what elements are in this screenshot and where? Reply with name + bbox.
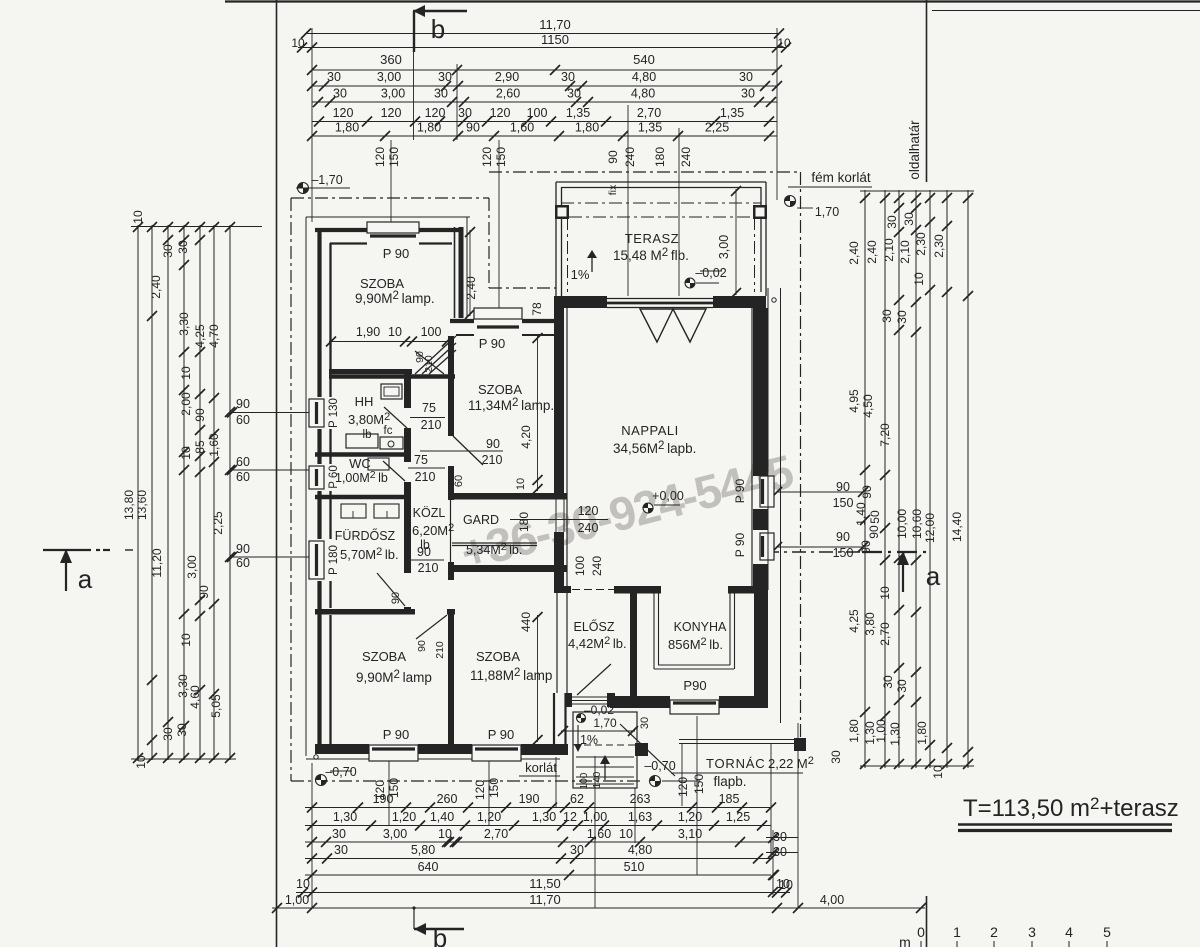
svg-text:4,80: 4,80 — [631, 87, 655, 101]
partition between bottom szoba rooms — [448, 615, 454, 744]
svg-text:240: 240 — [623, 147, 637, 167]
konyha east wall — [754, 593, 768, 708]
eaves dashed boundary courtyard — [488, 198, 490, 288]
svg-text:30: 30 — [885, 215, 899, 229]
svg-text:1,80: 1,80 — [847, 719, 861, 743]
svg-text:15,48 M2 flb.: 15,48 M2 flb. — [613, 247, 689, 263]
svg-text:1,80: 1,80 — [575, 121, 599, 135]
right dimension block vertical chains — [864, 190, 866, 768]
svg-text:2,40: 2,40 — [464, 276, 478, 300]
svg-text:150: 150 — [692, 774, 706, 794]
svg-text:13,60: 13,60 — [135, 490, 149, 520]
svg-text:85: 85 — [193, 440, 207, 454]
svg-text:–1,70: –1,70 — [311, 173, 342, 187]
svg-text:90: 90 — [236, 542, 250, 556]
spine wall opening 120/240 — [555, 496, 557, 532]
elosz south wall and threshold — [571, 696, 611, 698]
svg-text:TERASZ: TERASZ — [625, 231, 679, 246]
terasz slope arrow 1% — [591, 252, 593, 272]
svg-text:240: 240 — [679, 147, 693, 167]
svg-text:4,00: 4,00 — [820, 893, 844, 907]
svg-text:fix: fix — [607, 184, 619, 195]
svg-text:1,35: 1,35 — [638, 121, 662, 135]
svg-text:1,80: 1,80 — [417, 121, 441, 135]
partition HH / WC — [315, 452, 411, 457]
svg-text:fc: fc — [384, 425, 393, 437]
svg-text:11,88M2 lamp: 11,88M2 lamp — [470, 667, 552, 683]
window P90 south-right — [472, 745, 521, 761]
svg-text:1150: 1150 — [541, 32, 569, 47]
window P60 west wall WC — [309, 466, 324, 489]
svg-text:30: 30 — [458, 106, 472, 120]
svg-text:a: a — [926, 561, 941, 591]
svg-text:856M2 lb.: 856M2 lb. — [668, 636, 723, 652]
szoba 11,88 dim 440 — [537, 615, 539, 742]
svg-text:120: 120 — [578, 504, 599, 518]
svg-text:2,90: 2,90 — [495, 70, 519, 84]
svg-text:120: 120 — [490, 106, 511, 120]
svg-text:2,40: 2,40 — [847, 241, 861, 265]
svg-text:10: 10 — [388, 325, 402, 339]
svg-text:1,70: 1,70 — [815, 205, 839, 219]
tornac ramp diagonal — [620, 724, 675, 776]
svg-text:10: 10 — [776, 877, 790, 891]
svg-text:4,42M2 lb.: 4,42M2 lb. — [568, 635, 627, 651]
window P90 szoba 11,34 — [474, 308, 522, 319]
svg-text:4,25: 4,25 — [847, 609, 861, 633]
tornac north edge — [679, 739, 801, 741]
svg-text:150: 150 — [833, 546, 854, 560]
svg-text:1,00: 1,00 — [583, 810, 607, 824]
svg-text:SZOBA: SZOBA — [476, 649, 520, 664]
entry dashed line — [573, 744, 637, 746]
svg-text:60: 60 — [236, 455, 250, 469]
svg-text:1,25: 1,25 — [726, 810, 750, 824]
svg-text:60: 60 — [236, 556, 250, 570]
svg-text:75: 75 — [414, 453, 428, 467]
svg-text:150: 150 — [487, 778, 501, 798]
svg-text:210: 210 — [434, 641, 446, 659]
svg-text:1,70: 1,70 — [593, 716, 617, 730]
window P90 konyha south — [670, 700, 719, 714]
svg-text:10: 10 — [515, 478, 527, 490]
top dim vertical guides — [311, 28, 313, 222]
svg-text:30: 30 — [434, 87, 448, 101]
svg-text:34,56M2 lapb.: 34,56M2 lapb. — [613, 440, 696, 456]
svg-text:90: 90 — [606, 150, 620, 164]
svg-text:100: 100 — [573, 556, 587, 576]
svg-text:10: 10 — [131, 210, 145, 224]
svg-text:m: m — [899, 934, 911, 947]
svg-text:1,20: 1,20 — [477, 810, 501, 824]
svg-text:3,00: 3,00 — [377, 70, 401, 84]
svg-text:30: 30 — [334, 843, 348, 857]
WC door swing — [383, 461, 405, 481]
svg-text:3,00: 3,00 — [717, 235, 731, 259]
svg-text:90: 90 — [417, 545, 431, 559]
svg-text:180: 180 — [653, 147, 667, 167]
svg-text:GARD: GARD — [463, 513, 499, 527]
sheet frame vertical line left — [276, 0, 278, 947]
svg-text:2,70: 2,70 — [637, 106, 661, 120]
svg-text:oldalhatár: oldalhatár — [907, 120, 922, 180]
eaves dashed boundary terasz top — [489, 171, 800, 173]
svg-text:260: 260 — [437, 792, 458, 806]
svg-text:3: 3 — [1028, 924, 1036, 940]
elosz door swing — [577, 664, 611, 695]
svg-text:ELŐSZ: ELŐSZ — [574, 619, 615, 634]
east wall window P90 lower — [760, 533, 774, 560]
svg-text:210: 210 — [415, 470, 436, 484]
svg-text:62: 62 — [570, 792, 584, 806]
svg-text:14,40: 14,40 — [950, 512, 964, 542]
svg-text:120: 120 — [381, 106, 402, 120]
level mark top-left -1,70 — [298, 183, 309, 194]
svg-text:3,00: 3,00 — [185, 555, 199, 579]
svg-text:P90: P90 — [683, 678, 706, 693]
svg-text:NAPPALI: NAPPALI — [621, 423, 678, 438]
svg-text:180: 180 — [517, 512, 531, 532]
WC fixture — [368, 458, 389, 470]
svg-text:P 90: P 90 — [733, 478, 747, 503]
svg-text:+0,00: +0,00 — [652, 489, 684, 503]
partition KOZL east wall — [448, 336, 454, 436]
svg-text:30: 30 — [881, 675, 895, 689]
svg-text:SZOBA: SZOBA — [360, 276, 404, 291]
svg-text:30: 30 — [739, 70, 753, 84]
svg-text:2,60: 2,60 — [496, 87, 520, 101]
sheet border top line — [225, 0, 1200, 2]
south exterior wall — [306, 758, 560, 760]
svg-text:30: 30 — [176, 240, 190, 254]
svg-text:2,00: 2,00 — [179, 392, 193, 416]
svg-text:100: 100 — [579, 772, 590, 789]
svg-text:flapb.: flapb. — [713, 774, 746, 789]
svg-text:10,00: 10,00 — [895, 509, 909, 539]
svg-text:90: 90 — [836, 530, 850, 544]
svg-text:2,70: 2,70 — [484, 827, 508, 841]
konyha counter U — [653, 591, 655, 669]
west exterior wall — [305, 217, 307, 756]
svg-text:1,00M2 lb: 1,00M2 lb — [335, 469, 388, 485]
svg-text:HH: HH — [355, 394, 374, 409]
svg-text:3,80: 3,80 — [863, 612, 877, 636]
furdo fixtures — [341, 504, 366, 518]
svg-text:10: 10 — [912, 272, 926, 286]
svg-text:210: 210 — [482, 453, 503, 467]
svg-text:120: 120 — [676, 777, 690, 797]
svg-text:1,30: 1,30 — [333, 810, 357, 824]
svg-text:1,40: 1,40 — [854, 502, 868, 526]
svg-text:2,70: 2,70 — [878, 622, 892, 646]
svg-text:P 90: P 90 — [488, 727, 515, 742]
svg-text:P 90: P 90 — [383, 246, 410, 261]
svg-text:2,10: 2,10 — [882, 238, 896, 262]
svg-text:2,25: 2,25 — [705, 121, 729, 135]
svg-text:1,40: 1,40 — [430, 810, 454, 824]
entry corner post — [635, 743, 648, 756]
svg-text:90: 90 — [390, 592, 402, 604]
bottom dim guides vertical — [311, 763, 313, 908]
svg-text:2,10: 2,10 — [898, 240, 912, 264]
svg-text:P 130: P 130 — [328, 398, 340, 428]
svg-text:7,20: 7,20 — [878, 423, 892, 447]
svg-text:FÜRDŐSZ: FÜRDŐSZ — [335, 528, 396, 543]
svg-text:360: 360 — [380, 52, 402, 67]
nappali north wall segments — [556, 296, 607, 308]
gard closet line — [452, 542, 537, 544]
entry platform — [573, 712, 637, 788]
svg-text:a: a — [78, 564, 93, 594]
terasz door swing triangles — [640, 309, 673, 342]
svg-text:190: 190 — [373, 792, 394, 806]
svg-text:640: 640 — [418, 860, 439, 874]
svg-text:b: b — [433, 923, 447, 947]
svg-text:10: 10 — [296, 877, 310, 891]
svg-text:10: 10 — [179, 446, 193, 460]
svg-text:30: 30 — [829, 750, 843, 764]
konyha east jog — [749, 586, 768, 594]
svg-text:30: 30 — [175, 723, 189, 737]
right block mid ticks — [894, 203, 904, 213]
svg-text:4: 4 — [1065, 924, 1073, 940]
entry level -0,02 — [577, 714, 586, 723]
svg-text:4,70: 4,70 — [207, 324, 221, 348]
svg-text:1,00: 1,00 — [874, 719, 888, 743]
svg-text:90: 90 — [416, 640, 428, 652]
svg-text:4,50: 4,50 — [861, 394, 875, 418]
svg-text:4,60: 4,60 — [188, 685, 202, 709]
svg-text:90: 90 — [867, 525, 881, 539]
svg-text:120: 120 — [480, 147, 494, 167]
terasz outer walls thin double — [556, 181, 766, 183]
svg-text:5,70M2 lb.: 5,70M2 lb. — [340, 546, 399, 562]
svg-text:2,30: 2,30 — [932, 234, 946, 258]
tornac level -0,70 — [650, 776, 661, 787]
svg-text:3,30: 3,30 — [177, 312, 191, 336]
spine wall between middle rooms and nappali — [554, 296, 564, 496]
svg-text:90: 90 — [236, 397, 250, 411]
tornac south edge line — [671, 772, 803, 774]
section marker b bottom — [414, 928, 464, 930]
svg-text:10: 10 — [619, 827, 633, 841]
terasz level mark -0,02 — [685, 278, 695, 288]
svg-text:90: 90 — [466, 121, 480, 135]
svg-text:30: 30 — [333, 87, 347, 101]
partition gard / szoba 11,88 — [449, 565, 567, 572]
svg-text:30: 30 — [570, 843, 584, 857]
svg-text:4,80: 4,80 — [628, 843, 652, 857]
svg-text:2: 2 — [990, 924, 998, 940]
svg-text:510: 510 — [624, 860, 645, 874]
terasz sliding door — [607, 298, 713, 300]
svg-text:KONYHA: KONYHA — [674, 620, 727, 634]
svg-text:90: 90 — [486, 437, 500, 451]
eaves dashed boundary south — [291, 780, 640, 782]
konyha south wall — [610, 696, 670, 708]
stair hatch to szoba 11,34 — [415, 336, 456, 374]
szoba 11,34 dim 4,20 — [537, 336, 539, 491]
svg-text:1,35: 1,35 — [720, 106, 744, 120]
eaves dashed boundary north-left — [291, 197, 489, 199]
nappali south wall and elosz passage — [556, 586, 571, 593]
elosz west wall — [556, 593, 558, 693]
small circle marker NE corner — [772, 298, 776, 302]
svg-text:1,80: 1,80 — [335, 121, 359, 135]
svg-text:10: 10 — [878, 586, 892, 600]
partition szoba 11,34 / gard — [449, 493, 567, 500]
svg-text:1,60: 1,60 — [587, 827, 611, 841]
svg-text:P 180: P 180 — [328, 545, 340, 575]
svg-text:90: 90 — [197, 585, 211, 599]
svg-text:fém korlát: fém korlát — [811, 170, 871, 185]
svg-text:30: 30 — [332, 827, 346, 841]
svg-text:1%: 1% — [580, 733, 598, 747]
terasz corner column left — [555, 205, 569, 219]
svg-text:1,30: 1,30 — [888, 722, 902, 746]
svg-text:10,60: 10,60 — [910, 509, 924, 539]
partition furdo / szoba bottom — [315, 609, 415, 615]
svg-text:60: 60 — [236, 470, 250, 484]
terasz 3,00 dim — [735, 189, 737, 295]
svg-text:4,20: 4,20 — [519, 425, 533, 449]
szoba 11,34 door swing — [453, 436, 483, 465]
partition WC / furdo — [315, 495, 411, 500]
HH north wall — [329, 374, 455, 379]
svg-text:–0,70: –0,70 — [644, 759, 675, 773]
svg-text:75: 75 — [422, 401, 436, 415]
svg-text:210: 210 — [418, 561, 439, 575]
svg-text:10: 10 — [179, 633, 193, 647]
eaves dashed boundary west — [290, 198, 292, 781]
svg-text:11,50: 11,50 — [529, 876, 561, 891]
svg-text:210: 210 — [423, 355, 435, 373]
svg-text:b: b — [431, 14, 445, 44]
svg-text:P 90: P 90 — [733, 532, 747, 557]
left dimension block vertical chains — [137, 225, 139, 760]
svg-text:12,00: 12,00 — [923, 513, 937, 543]
svg-text:11,70: 11,70 — [539, 17, 571, 32]
svg-text:4,80: 4,80 — [632, 70, 656, 84]
oldalhatar property line lower — [926, 896, 928, 947]
svg-text:10: 10 — [931, 765, 945, 779]
HH interior fixtures — [381, 384, 402, 399]
svg-text:1%: 1% — [571, 267, 590, 282]
svg-text:50: 50 — [868, 510, 882, 524]
svg-text:lb: lb — [363, 429, 372, 441]
svg-text:3,10: 3,10 — [678, 827, 702, 841]
svg-text:120: 120 — [473, 780, 487, 800]
svg-text:540: 540 — [633, 52, 655, 67]
svg-text:–0,02: –0,02 — [695, 266, 726, 280]
svg-text:–0,02: –0,02 — [584, 703, 614, 717]
svg-text:10: 10 — [179, 366, 193, 380]
east wall of szoba top-left block — [454, 227, 456, 318]
entry up arrow — [604, 758, 606, 780]
svg-text:150: 150 — [494, 147, 508, 167]
svg-text:3,00: 3,00 — [381, 87, 405, 101]
svg-text:1,20: 1,20 — [392, 810, 416, 824]
svg-text:263: 263 — [630, 792, 651, 806]
svg-text:30: 30 — [161, 727, 175, 741]
svg-text:TORNÁC: TORNÁC — [706, 756, 765, 771]
svg-text:10: 10 — [134, 755, 148, 769]
dim 240 passage east of szoba — [469, 230, 471, 316]
svg-text:150: 150 — [387, 147, 401, 167]
svg-text:2,40: 2,40 — [149, 275, 163, 299]
section marker a left — [43, 549, 91, 551]
svg-text:13,80: 13,80 — [122, 490, 136, 520]
services east wall HH WC FURDO — [404, 374, 411, 408]
svg-text:1,60: 1,60 — [207, 433, 221, 457]
svg-text:60: 60 — [453, 475, 465, 487]
svg-text:P 90: P 90 — [479, 336, 506, 351]
svg-text:30: 30 — [902, 212, 916, 226]
svg-text:1: 1 — [953, 924, 961, 940]
total area double underline — [958, 823, 1172, 826]
furdo door swing — [377, 573, 405, 606]
svg-text:3,00: 3,00 — [383, 827, 407, 841]
svg-text:5,80: 5,80 — [411, 843, 435, 857]
svg-text:1,60: 1,60 — [510, 121, 534, 135]
eaves dashed boundary east — [800, 172, 802, 739]
left block mid ticks — [163, 235, 173, 245]
section marker b top — [413, 10, 467, 12]
svg-text:1,90: 1,90 — [356, 325, 380, 339]
svg-text:11,34M2 lamp.: 11,34M2 lamp. — [468, 397, 554, 413]
svg-text:30: 30 — [880, 309, 894, 323]
passage wall under szoba top-left — [329, 369, 412, 374]
svg-text:4,95: 4,95 — [847, 389, 861, 413]
svg-text:30: 30 — [161, 244, 175, 258]
level mark bottom-left -0,70 — [314, 755, 318, 759]
vertical guides to bottom dims — [681, 744, 683, 806]
szoba bottom-left door swing — [416, 615, 447, 639]
sheet border top-right thin — [932, 10, 1200, 12]
svg-text:90: 90 — [193, 408, 207, 422]
elosz konyha partition wall — [630, 591, 637, 697]
svg-text:11,20: 11,20 — [150, 548, 164, 577]
tornac corner post right — [794, 738, 806, 751]
svg-text:440: 440 — [519, 612, 533, 632]
window P90 south-left — [369, 745, 418, 761]
svg-text:78: 78 — [530, 302, 544, 316]
svg-text:4,25: 4,25 — [193, 324, 207, 348]
svg-text:6,20M2: 6,20M2 — [412, 522, 454, 538]
svg-text:1,00: 1,00 — [285, 893, 309, 907]
north wall szoba 11,34 — [450, 319, 474, 323]
svg-text:SZOBA: SZOBA — [362, 649, 406, 664]
north wall of szoba top-left — [306, 216, 470, 218]
section marker a right — [765, 551, 860, 553]
terasz corner column right — [753, 205, 767, 219]
svg-text:2,22 M2: 2,22 M2 — [768, 755, 814, 771]
svg-text:210: 210 — [421, 418, 442, 432]
svg-text:1,20: 1,20 — [678, 810, 702, 824]
east wall window P90 upper — [760, 476, 774, 507]
window P180 west wall furdo — [309, 541, 324, 579]
nappali +0,00 level — [643, 503, 653, 513]
svg-text:30: 30 — [895, 679, 909, 693]
entry steps — [576, 756, 634, 758]
svg-text:30: 30 — [741, 87, 755, 101]
svg-text:100: 100 — [421, 325, 442, 339]
svg-text:5,05: 5,05 — [209, 694, 223, 718]
svg-text:240: 240 — [578, 521, 599, 535]
level mark top-right -1,70 — [785, 196, 796, 207]
HH door swing — [384, 407, 407, 428]
svg-text:150: 150 — [833, 496, 854, 510]
